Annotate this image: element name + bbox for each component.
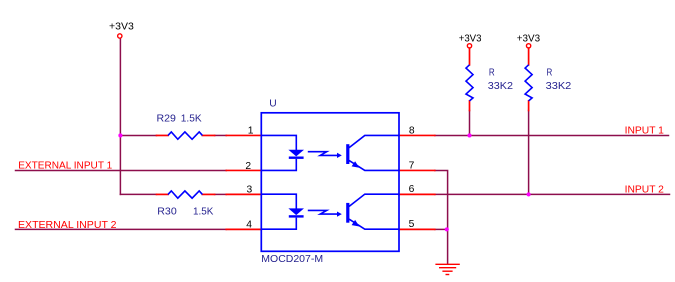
svg-text:U: U xyxy=(269,99,276,110)
svg-text:1.5K: 1.5K xyxy=(193,207,214,218)
svg-text:33K2: 33K2 xyxy=(488,81,513,92)
svg-text:1: 1 xyxy=(248,126,254,137)
svg-text:8: 8 xyxy=(409,125,415,136)
svg-text:4: 4 xyxy=(246,220,252,231)
svg-text:INPUT 2: INPUT 2 xyxy=(625,184,665,195)
svg-text:33K2: 33K2 xyxy=(546,81,572,92)
svg-text:1.5K: 1.5K xyxy=(181,114,202,125)
svg-text:MOCD207-M: MOCD207-M xyxy=(261,254,323,265)
svg-text:EXTERNAL INPUT 1: EXTERNAL INPUT 1 xyxy=(18,161,112,172)
svg-text:R: R xyxy=(489,68,495,79)
svg-text:R29: R29 xyxy=(157,114,177,125)
svg-text:EXTERNAL INPUT 2: EXTERNAL INPUT 2 xyxy=(18,220,117,231)
svg-text:+3V3: +3V3 xyxy=(517,34,541,45)
svg-text:+3V3: +3V3 xyxy=(109,22,134,33)
svg-text:6: 6 xyxy=(409,184,415,195)
svg-text:5: 5 xyxy=(409,219,415,230)
svg-text:+3V3: +3V3 xyxy=(459,34,482,45)
svg-text:INPUT 1: INPUT 1 xyxy=(625,126,665,137)
svg-text:7: 7 xyxy=(409,161,415,172)
svg-text:2: 2 xyxy=(245,161,251,172)
svg-text:R30: R30 xyxy=(157,207,177,218)
svg-text:3: 3 xyxy=(247,185,253,196)
svg-text:R: R xyxy=(547,68,553,79)
